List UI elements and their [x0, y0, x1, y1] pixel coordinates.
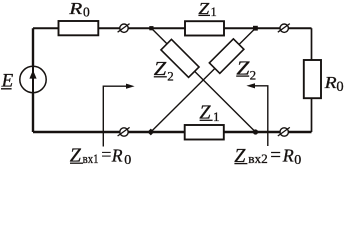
svg-text:0: 0 [294, 153, 301, 168]
impedance Z2 left (on TL-BR diagonal) [161, 39, 199, 77]
svg-text:1: 1 [213, 109, 220, 124]
impedance Z2 right (on TR-BL diagonal) [209, 39, 244, 74]
svg-text:вх2: вх2 [248, 152, 267, 166]
label Zvx1 = R0 [70, 144, 131, 168]
terminal port 1 bottom [118, 127, 130, 136]
svg-text:R: R [323, 73, 337, 92]
svg-text:R: R [111, 145, 123, 165]
terminal port 2 top [278, 24, 290, 33]
resistor R0 right [304, 60, 321, 98]
voltage source E1 [20, 66, 46, 92]
wire diagonal TL-BR [151, 28, 255, 132]
label R0 top [68, 0, 90, 19]
node TL junction [149, 26, 153, 30]
terminal port 2 bottom [278, 127, 290, 136]
svg-text:вх1: вх1 [83, 152, 99, 166]
label Z1 top [198, 0, 216, 19]
label Zvx2 = R0 [234, 145, 301, 168]
label Z2 left [154, 58, 174, 83]
svg-text:=: = [270, 145, 281, 166]
svg-text:2: 2 [167, 68, 174, 83]
wire left branch [32, 28, 34, 132]
svg-text:2: 2 [250, 67, 257, 82]
label R0 right [323, 73, 343, 95]
svg-text:0: 0 [83, 4, 90, 19]
label Z1 bottom [199, 102, 219, 125]
measurement arrow Zvx1 [103, 84, 134, 147]
impedance Z1 top [185, 21, 224, 35]
resistor R0 top [59, 21, 99, 35]
measurement arrow Zvx2 [246, 83, 267, 146]
svg-text:1: 1 [211, 5, 217, 19]
wire bottom bus [33, 131, 312, 133]
node TR junction [253, 26, 258, 31]
label Z2 right [236, 57, 256, 82]
svg-text:0: 0 [336, 79, 343, 95]
svg-text:0: 0 [124, 153, 131, 168]
node BL junction [147, 129, 154, 136]
svg-text:R: R [68, 0, 83, 18]
wire diagonal TR-BL [151, 28, 256, 132]
impedance Z1 bottom [185, 125, 224, 140]
wire top bus [33, 27, 312, 29]
terminal port 1 top [118, 24, 130, 33]
wire right branch [311, 28, 313, 132]
svg-text:=: = [101, 145, 111, 165]
node BR junction [253, 129, 258, 134]
svg-text:R: R [282, 146, 294, 166]
label E source [1, 70, 14, 91]
